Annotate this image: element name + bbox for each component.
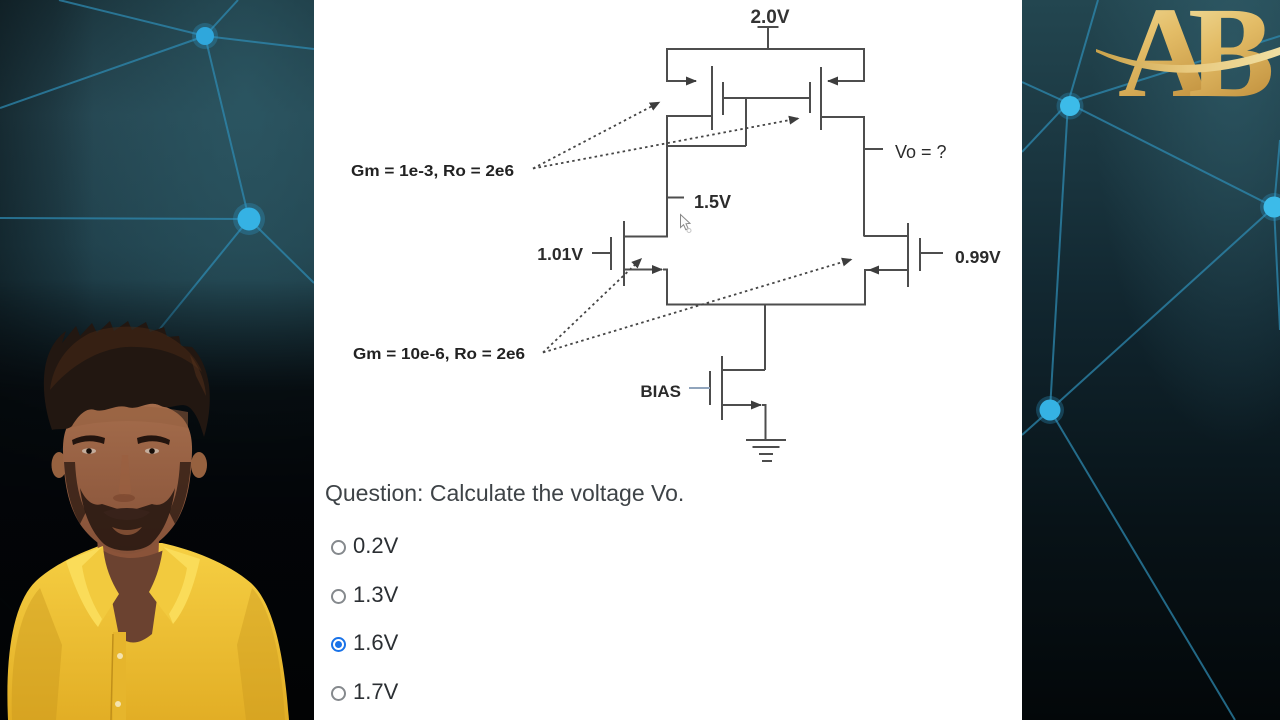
ground symbol	[746, 440, 786, 461]
nose	[119, 455, 131, 496]
diode-tie vertical wire	[745, 98, 747, 146]
left dark plexus panel with presenter	[0, 0, 314, 720]
M5 drain lead wire	[722, 369, 765, 371]
transistor M2 gate bar	[809, 82, 811, 113]
transistor M5 (NMOS tail bias) channel bar	[721, 356, 723, 420]
transistor M4 (NMOS diff pair right) channel bar	[907, 223, 909, 287]
left vertical wire (node 1.5V)	[666, 115, 668, 238]
M5 source wire with arrow	[722, 404, 761, 406]
transistor M1 gate bar	[722, 82, 724, 115]
moustache / beard	[80, 488, 175, 551]
right dark plexus panel with logo	[1022, 0, 1280, 720]
svg-text:2.0V: 2.0V	[750, 7, 789, 28]
M5 source corner wire to ground	[762, 405, 766, 439]
M1 drain lead wire	[667, 115, 712, 117]
option 0.2V	[331, 533, 631, 557]
plexus lines	[1068, 0, 1098, 103]
M4 source corner wire	[865, 270, 870, 304]
option 1.6V selected	[331, 630, 631, 654]
transistor M5 gate bar	[709, 371, 711, 405]
mouse cursor	[681, 215, 692, 233]
face	[63, 401, 192, 554]
tail drop wire	[764, 304, 766, 370]
dashed arrow to M2	[533, 119, 798, 169]
plexus lines	[59, 0, 205, 36]
M4 source wire with arrow	[869, 269, 908, 271]
dashed arrow to M3	[543, 259, 641, 353]
transistor M3 (NMOS diff pair left) channel bar	[623, 221, 625, 286]
plexus node A	[192, 23, 218, 49]
M2 drain lead wire	[821, 116, 864, 118]
plexus node B	[233, 203, 265, 235]
supply bar	[758, 26, 779, 28]
transistor M4 gate bar	[919, 238, 921, 271]
M5 gate lead wire (light)	[689, 387, 710, 389]
M3 source wire with arrow	[624, 269, 662, 271]
supply stem wire	[767, 27, 769, 49]
question text	[325, 480, 684, 507]
M4 gate lead wire	[920, 252, 943, 254]
transistor M1 (PMOS mirror, diode-connected) channel bar	[711, 66, 713, 130]
white quiz area	[314, 0, 1022, 720]
1.5V node tick	[667, 197, 684, 199]
plexus node E	[1036, 396, 1064, 424]
collar right	[149, 547, 200, 624]
svg-text:Gm = 10e-6, Ro = 2e6: Gm = 10e-6, Ro = 2e6	[353, 346, 525, 363]
AB logo	[1118, 0, 1275, 125]
dashed arrow to M1	[533, 103, 659, 169]
eyes	[82, 448, 96, 454]
plexus node D	[1260, 193, 1280, 221]
transistor M3 gate bar	[610, 237, 612, 270]
wire VDD to M1 source	[667, 48, 696, 81]
option 1.7V	[331, 679, 631, 703]
hair	[44, 321, 210, 437]
svg-text:1.01V: 1.01V	[537, 244, 583, 264]
svg-text:Gm = 1e-3, Ro = 2e6: Gm = 1e-3, Ro = 2e6	[351, 163, 514, 180]
svg-text:BIAS: BIAS	[640, 382, 681, 401]
M3 drain bend wire	[624, 236, 667, 238]
Vo node tick	[864, 148, 883, 150]
dashed arrow to M4	[543, 260, 851, 353]
photo backdrop fade	[0, 280, 314, 720]
M3 gate lead wire	[592, 252, 611, 254]
neck	[96, 515, 160, 577]
logo swoosh	[1096, 47, 1280, 73]
shirt	[7, 543, 289, 720]
M4 drain bend wire	[864, 235, 908, 237]
collar left	[66, 546, 119, 627]
forehead shade	[68, 406, 188, 428]
wire VDD to M2 source	[828, 48, 864, 81]
ears	[52, 452, 67, 478]
svg-text:Vo = ?: Vo = ?	[895, 142, 947, 162]
svg-text:0.99V: 0.99V	[955, 247, 1001, 267]
transistor M2 (PMOS mirror output) channel bar	[820, 67, 822, 130]
presenter	[7, 321, 289, 720]
right vertical wire (node Vo)	[863, 116, 865, 237]
top rail wire	[666, 48, 864, 50]
plexus node C	[1057, 93, 1084, 120]
chest V skin	[102, 550, 164, 643]
eyebrows	[72, 435, 105, 445]
placket	[113, 632, 126, 720]
M3 source corner wire	[663, 270, 667, 305]
option 1.3V	[331, 582, 631, 606]
tail rail wire	[666, 304, 866, 306]
gate interconnect wire M1-M2	[723, 97, 810, 99]
diode-tie horizontal wire	[667, 145, 746, 147]
svg-text:1.5V: 1.5V	[694, 192, 731, 212]
